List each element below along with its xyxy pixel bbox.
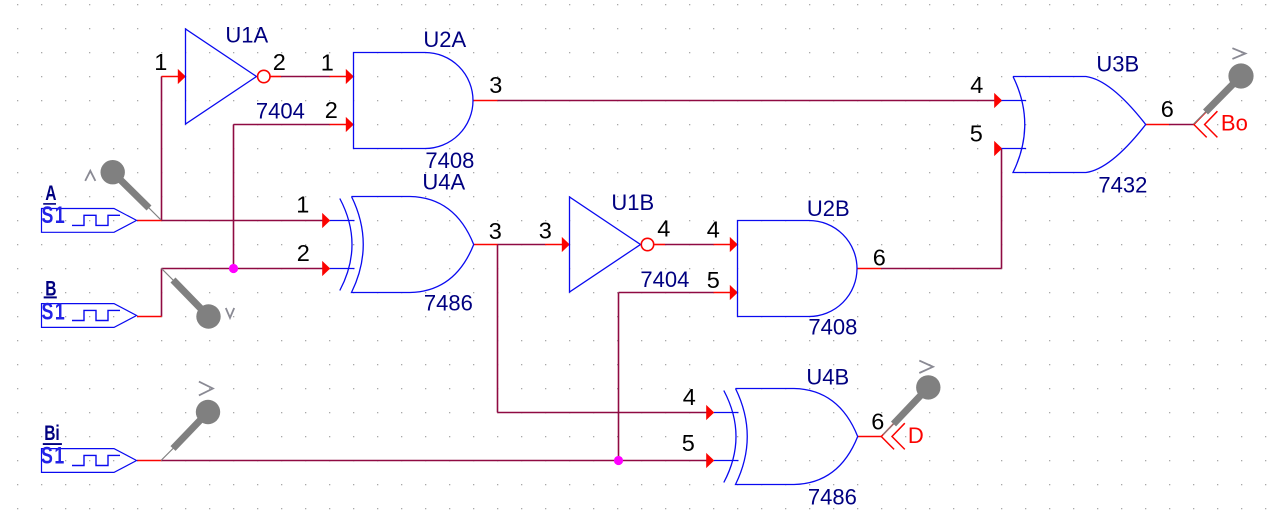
output terminal Bo chevrons	[1194, 111, 1218, 137]
wire Bi branch to U2B pin5	[619, 292, 714, 294]
probe on node D	[883, 375, 941, 434]
wire U3B out to terminal Bo	[1169, 124, 1194, 126]
probe on node A	[101, 160, 162, 220]
pin stub: U4A output pin 3	[474, 244, 498, 246]
svg-text:5: 5	[970, 121, 983, 147]
probe on node Bi	[161, 400, 220, 461]
svg-text:S1: S1	[41, 443, 66, 469]
pin 3 label U1B	[539, 218, 552, 244]
XOR gate U4B extra input arc	[724, 391, 736, 483]
svg-text:7404: 7404	[640, 267, 689, 292]
svg-text:1: 1	[321, 50, 334, 76]
pin 5 label U4B	[682, 430, 695, 456]
svg-text:7432: 7432	[1098, 173, 1147, 198]
arrow into U2A pin 2	[346, 117, 354, 132]
arrow into U3B pin 5	[994, 141, 1002, 156]
wire net B branch to U2A pin2	[234, 124, 330, 126]
pin 3 label U2A	[489, 72, 502, 98]
pin stub: U1B input pin 3	[545, 244, 562, 246]
wire U2B out riser	[1001, 149, 1003, 269]
svg-text:5: 5	[707, 267, 720, 293]
switch Bi square wave symbol	[72, 455, 120, 465]
svg-text:U1A: U1A	[225, 23, 268, 48]
pin stub: U3B output pin 6	[1145, 124, 1169, 126]
pin 4 label U1B	[657, 216, 670, 242]
pin stub: U2A input pin 1	[330, 76, 347, 78]
inverter U1B (7404)	[570, 197, 641, 292]
wire U4A out to U1B input	[498, 244, 546, 246]
input label A with underline	[43, 181, 56, 205]
pin 1 label U4A	[296, 192, 309, 218]
svg-text:2: 2	[325, 97, 338, 123]
arrow into U3B pin 4	[994, 93, 1002, 108]
inverter U1A (7404)	[186, 29, 257, 124]
wire U4A out branch to U4B pin4	[498, 412, 714, 414]
input label B with underline	[44, 276, 57, 300]
arrow into U4A pin 1	[322, 213, 330, 228]
svg-text:7486: 7486	[424, 291, 473, 316]
label U4A	[422, 170, 465, 195]
svg-text:U3B: U3B	[1096, 52, 1139, 77]
pin 2 label U1A	[273, 49, 286, 75]
pin stub: U2B output pin 6	[857, 268, 881, 270]
wire Bi branch up	[618, 293, 620, 461]
OR gate U3B (7432) body	[1013, 77, 1146, 173]
label U4B	[806, 365, 849, 390]
wire net B: horizontal to U4A pin2	[162, 268, 330, 270]
arrow into U4B pin 5	[706, 453, 714, 468]
svg-text:U2A: U2A	[423, 27, 466, 52]
wire U1A out to U2A pin1	[281, 76, 330, 78]
pin stub: U2A output pin 3	[473, 100, 498, 102]
arrow into U2A pin 1	[346, 69, 354, 84]
junction node B (magenta dot)	[229, 264, 238, 273]
pin 4 label U2B	[707, 217, 720, 243]
wire net B: riser from switch B	[161, 269, 163, 317]
inverter U1B output bubble	[641, 238, 653, 250]
pin 6 label U2B	[873, 245, 886, 271]
XOR gate U4A input pin lines	[330, 221, 355, 269]
wire U1B out to U2B pin4	[665, 244, 714, 246]
arrow into U4A pin 2	[322, 261, 330, 276]
label 7486 (U4A)	[424, 291, 473, 316]
pin 5 label U3B	[970, 121, 983, 147]
pin 2 label U4A	[297, 240, 310, 266]
pin stub: switch B output	[137, 316, 162, 318]
svg-text:3: 3	[539, 218, 552, 244]
pin stub: U2A input pin 2	[330, 124, 347, 126]
XOR gate U4A (7486) body	[352, 197, 474, 293]
wire net A: horizontal to U4A pin1	[162, 220, 330, 222]
pin 2 label U2A	[325, 97, 338, 123]
label U1B	[611, 190, 654, 215]
svg-text:3: 3	[489, 218, 502, 244]
svg-text:4: 4	[657, 216, 670, 242]
svg-text:6: 6	[1161, 96, 1174, 122]
svg-text:1: 1	[296, 192, 309, 218]
pin 5 label U2B	[707, 267, 720, 293]
input switch S1 (A) body	[42, 209, 137, 233]
XOR gate U4B (7486) body	[736, 389, 858, 485]
label 7486 (U4B)	[808, 485, 857, 510]
net label D	[908, 423, 924, 448]
wire net A: switch A riser to U1A input	[161, 77, 163, 221]
pin 6 label U4B	[871, 409, 884, 435]
svg-text:6: 6	[871, 409, 884, 435]
ref label S1 (A)	[42, 203, 67, 229]
svg-text:2: 2	[273, 49, 286, 75]
pin 3 label U4A	[489, 218, 502, 244]
arrow into U2B pin 4	[730, 237, 738, 252]
svg-text:4: 4	[970, 72, 983, 98]
arrow into U1A pin 1	[178, 69, 186, 84]
label 7408 (U2B)	[808, 315, 857, 340]
svg-text:A: A	[45, 181, 56, 205]
label 7408 (U2A)	[425, 148, 474, 173]
arrow into U1B pin 3	[562, 237, 570, 252]
XOR gate U4B input pin lines	[714, 413, 739, 461]
arrow into U4B pin 4	[706, 405, 714, 420]
XOR gate U4A extra input arc	[340, 199, 352, 291]
svg-text:U1B: U1B	[611, 190, 654, 215]
svg-text:Bo: Bo	[1221, 111, 1248, 136]
inverter U1A output bubble	[258, 70, 270, 82]
label U2B	[807, 196, 850, 221]
svg-text:U4A: U4A	[422, 170, 465, 195]
RED PIN STUBS	[137, 77, 1169, 461]
probe on node Bo	[1194, 63, 1254, 124]
svg-text:7404: 7404	[256, 99, 305, 124]
svg-text:1: 1	[154, 49, 167, 75]
input switch S1 (Bi) body	[42, 449, 137, 473]
pin stub: switch Bi output	[137, 460, 162, 462]
pin stub: switch A output	[137, 220, 162, 222]
svg-text:D: D	[908, 423, 924, 448]
input label Bi with underline	[43, 421, 62, 445]
pin 1 label U2A	[321, 50, 334, 76]
svg-text:5: 5	[682, 430, 695, 456]
wire net B: branch down from U2A pin2 level	[233, 125, 235, 269]
svg-text:S1: S1	[42, 203, 67, 229]
svg-text:3: 3	[489, 72, 502, 98]
arrow into U2B pin 5	[730, 285, 738, 300]
probe Bi direction mark	[199, 382, 213, 396]
switch A square wave symbol	[72, 215, 120, 225]
label 7404 (U1B)	[640, 267, 689, 292]
svg-text:2: 2	[297, 240, 310, 266]
svg-text:U4B: U4B	[806, 365, 849, 390]
probe B direction mark	[226, 308, 234, 318]
AND gate U2A (7408)	[354, 53, 474, 149]
pin stub: U2B input pin 4	[714, 244, 731, 246]
pin stub: U1A output pin 2	[271, 76, 282, 78]
svg-text:4: 4	[683, 384, 696, 410]
pin 4 label U4B	[683, 384, 696, 410]
pin stub: U1B output pin 4	[655, 244, 666, 246]
wire net Bi: switch Bi to U4B pin5	[162, 460, 714, 462]
net label Bo	[1221, 111, 1248, 136]
svg-text:U2B: U2B	[807, 196, 850, 221]
ref label S1 (Bi)	[41, 443, 66, 469]
label U3B	[1096, 52, 1139, 77]
svg-text:7486: 7486	[808, 485, 857, 510]
pin 4 label U3B	[970, 72, 983, 98]
switch B square wave symbol	[72, 310, 120, 320]
pin stub: U1A input pin 1	[162, 76, 179, 78]
pin 6 label U3B	[1161, 96, 1174, 122]
probe Bo direction mark	[1232, 48, 1245, 59]
input switch S1 (B) body	[42, 304, 137, 328]
pin 1 label U1A	[154, 49, 167, 75]
wire U4A out branch down	[497, 245, 499, 413]
output terminal D chevrons	[881, 423, 905, 449]
probe D direction mark	[919, 361, 933, 373]
svg-text:S1: S1	[42, 299, 67, 325]
probe A direction mark	[85, 171, 95, 181]
svg-text:4: 4	[707, 217, 720, 243]
label U1A	[225, 23, 268, 48]
junction node Bi (magenta dot)	[614, 456, 623, 465]
label 7432 (U3B)	[1098, 173, 1147, 198]
wire U2A out to U3B pin4	[498, 100, 1002, 102]
label 7404 (U1A)	[256, 99, 305, 124]
AND gate U2B (7408)	[738, 221, 858, 317]
svg-text:7408: 7408	[808, 315, 857, 340]
wire U2B out horizontal	[881, 268, 1002, 270]
label U2A	[423, 27, 466, 52]
ref label S1 (B)	[42, 299, 67, 325]
pin stub: U4B output pin 6	[857, 436, 881, 438]
probe on node B	[162, 269, 221, 329]
OR gate U3B input pin lines	[1002, 101, 1027, 149]
svg-text:6: 6	[873, 245, 886, 271]
svg-text:Bi: Bi	[44, 421, 60, 445]
pin stub: U2B input pin 5	[714, 292, 731, 294]
